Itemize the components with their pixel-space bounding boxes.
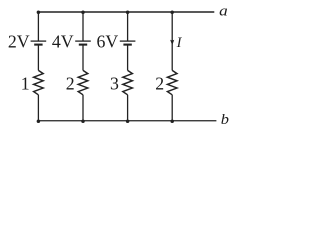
svg-text:1: 1: [21, 73, 30, 93]
svg-text:2: 2: [155, 73, 164, 93]
wire bottom rail node b: [38, 120, 216, 122]
svg-text:2: 2: [66, 73, 75, 93]
junction dots top rail: [37, 11, 174, 15]
svg-text:4V: 4V: [52, 32, 74, 52]
wire branch2 bottom lead: [82, 95, 84, 121]
current arrow I: [170, 40, 174, 46]
resistor R2: [78, 70, 88, 94]
battery V1 2V: [31, 41, 47, 45]
battery V3 6V: [120, 41, 136, 45]
wire branch3 bottom lead: [127, 95, 129, 121]
svg-text:a: a: [219, 4, 228, 20]
resistor R4: [167, 70, 177, 94]
wire branch1 mid lead: [37, 45, 39, 71]
svg-text:b: b: [221, 112, 230, 128]
svg-text:3: 3: [110, 73, 119, 93]
svg-text:I: I: [176, 35, 183, 51]
wire branch2 mid lead: [82, 45, 84, 71]
wire branch3 mid lead: [127, 45, 129, 71]
junction dots bottom rail: [37, 119, 174, 123]
wire branch4 bottom lead: [171, 95, 173, 121]
resistor R1: [34, 70, 44, 94]
wire branch1 bottom lead: [37, 95, 39, 121]
resistor R3: [123, 70, 133, 94]
svg-text:2V: 2V: [8, 32, 30, 52]
wire top rail node a: [38, 11, 214, 13]
wire branch2 top lead: [82, 12, 84, 41]
svg-text:6V: 6V: [96, 32, 118, 52]
wire branch4 top lead: [171, 12, 173, 70]
battery V2 4V: [75, 41, 91, 45]
wire branch3 top lead: [127, 12, 129, 41]
wire branch1 top lead: [37, 12, 39, 41]
